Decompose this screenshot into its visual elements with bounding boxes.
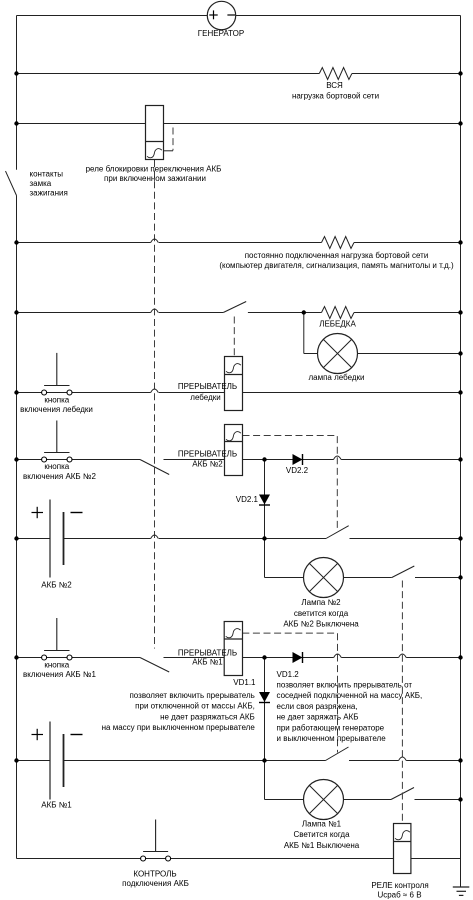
svg-text:ЛЕБЕДКА: ЛЕБЕДКА <box>319 320 356 329</box>
svg-text:ПРЕРЫВАТЕЛЬ: ПРЕРЫВАТЕЛЬ <box>178 382 237 391</box>
svg-text:при работающем генераторе: при работающем генераторе <box>277 723 385 732</box>
svg-text:и выключенном прерывателе: и выключенном прерывателе <box>277 734 387 743</box>
svg-text:включения АКБ №2: включения АКБ №2 <box>23 472 96 481</box>
svg-text:зажигания: зажигания <box>30 189 68 198</box>
svg-text:светится когда: светится когда <box>294 609 349 618</box>
svg-text:на массу при выключенном преры: на массу при выключенном прерывателе <box>102 723 256 732</box>
svg-text:постоянно подключенная нагрузк: постоянно подключенная нагрузка бортовой… <box>245 251 429 260</box>
svg-text:РЕЛЕ контроля: РЕЛЕ контроля <box>371 881 428 890</box>
svg-text:если своя разряжена,: если своя разряжена, <box>277 702 358 711</box>
svg-text:VD1.2: VD1.2 <box>277 670 300 679</box>
svg-text:замка: замка <box>30 179 52 188</box>
svg-text:лебедки: лебедки <box>190 393 220 402</box>
svg-text:реле блокировки переключения: реле блокировки переключения АКБ <box>86 165 222 174</box>
svg-text:кнопка: кнопка <box>44 462 69 471</box>
svg-text:VD1.1: VD1.1 <box>233 678 256 687</box>
svg-text:подключения АКБ: подключения АКБ <box>122 879 189 888</box>
svg-text:контакты: контакты <box>30 170 64 179</box>
svg-text:при включенном зажигании: при включенном зажигании <box>104 174 206 183</box>
svg-text:ГЕНЕРАТОР: ГЕНЕРАТОР <box>198 29 244 38</box>
svg-text:включения лебедки: включения лебедки <box>20 405 93 414</box>
svg-text:нагрузка бортовой сети: нагрузка бортовой сети <box>292 92 379 101</box>
svg-text:VD2.2: VD2.2 <box>286 466 309 475</box>
svg-text:Лампа №1: Лампа №1 <box>302 819 342 828</box>
svg-text:VD2.1: VD2.1 <box>236 495 259 504</box>
svg-text:соседней подключенной на массу: соседней подключенной на массу АКБ, <box>277 691 423 700</box>
svg-text:(компьютер двигателя, сигнализ: (компьютер двигателя, сигнализация, памя… <box>219 261 454 270</box>
svg-text:включения АКБ №1: включения АКБ №1 <box>23 670 96 679</box>
svg-text:АКБ №1 Выключена: АКБ №1 Выключена <box>284 841 360 850</box>
svg-text:Uсраб ≈ 6 В: Uсраб ≈ 6 В <box>377 891 421 900</box>
svg-text:КОНТРОЛЬ: КОНТРОЛЬ <box>133 870 176 879</box>
svg-text:АКБ №1: АКБ №1 <box>192 657 223 666</box>
svg-text:ПРЕРЫВАТЕЛЬ: ПРЕРЫВАТЕЛЬ <box>178 648 237 657</box>
svg-text:Лампа №2: Лампа №2 <box>301 598 341 607</box>
svg-text:не дает заряжать АКБ: не дает заряжать АКБ <box>277 713 359 722</box>
svg-text:лампа лебедки: лампа лебедки <box>308 373 364 382</box>
svg-text:АКБ №2: АКБ №2 <box>192 460 223 469</box>
svg-text:АКБ №1: АКБ №1 <box>41 801 72 810</box>
svg-text:кнопка: кнопка <box>44 660 69 669</box>
svg-text:кнопка: кнопка <box>44 396 69 405</box>
svg-text:позволяет включить прерыватель: позволяет включить прерыватель <box>129 691 254 700</box>
svg-text:АКБ №2: АКБ №2 <box>41 581 72 590</box>
svg-text:Светится когда: Светится когда <box>293 830 350 839</box>
svg-text:позволяет включить прерыватель: позволяет включить прерыватель от <box>277 680 413 689</box>
svg-text:не дает разряжаться АКБ: не дает разряжаться АКБ <box>160 712 255 721</box>
svg-text:при отключенной от массы АКБ,: при отключенной от массы АКБ, <box>135 702 255 711</box>
svg-text:ПРЕРЫВАТЕЛЬ: ПРЕРЫВАТЕЛЬ <box>178 450 237 459</box>
svg-text:АКБ №2 Выключена: АКБ №2 Выключена <box>283 620 359 629</box>
svg-text:ВСЯ: ВСЯ <box>326 81 343 90</box>
